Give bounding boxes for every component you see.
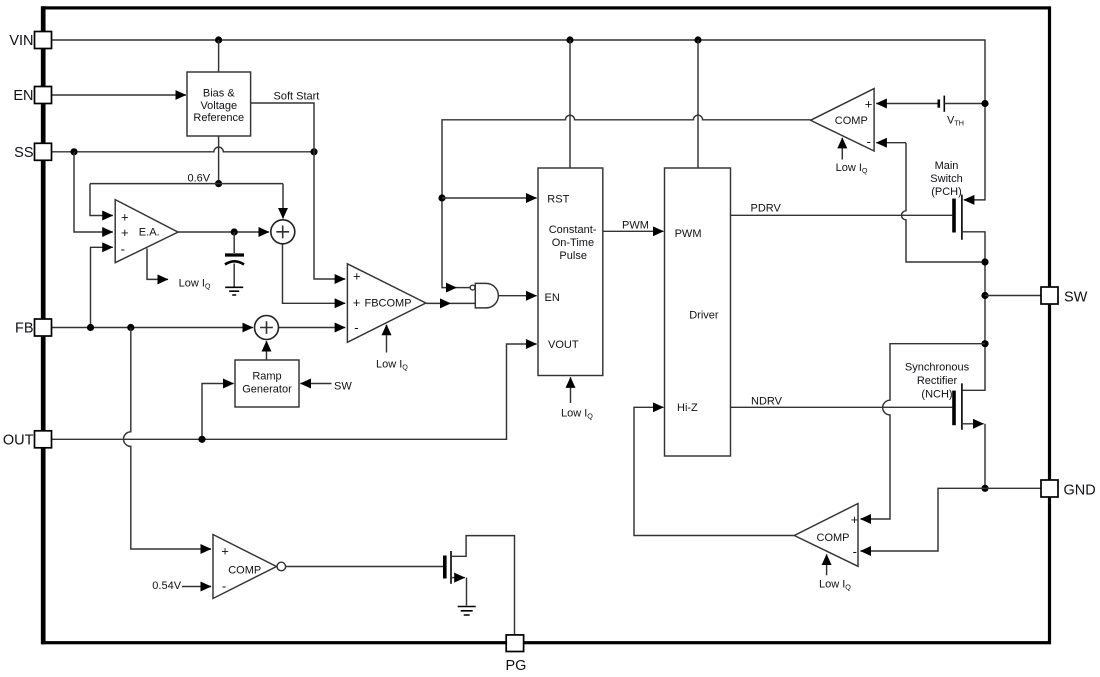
summing node S1 [271, 220, 295, 244]
svg-text:Main: Main [935, 160, 959, 172]
svg-text:Pulse: Pulse [559, 250, 587, 262]
box Bias & Voltage Reference [187, 72, 251, 136]
op-amp COMP power good [213, 535, 277, 599]
node RST branch [438, 194, 445, 201]
svg-text:COMP: COMP [228, 565, 261, 577]
svg-text:GND: GND [1064, 483, 1096, 499]
wire OUT pin line to VOUT input of COT [52, 344, 537, 439]
wire NDRV to synchronous rectifier gate [731, 406, 953, 408]
wire 0.6V to EA first + input [90, 184, 113, 216]
wire Low IQ arrow under top COMP [841, 138, 843, 160]
svg-text:+: + [121, 210, 129, 225]
svg-text:RST: RST [547, 193, 569, 205]
svg-text:Low IQ: Low IQ [819, 579, 851, 592]
svg-text:SW: SW [334, 381, 352, 393]
svg-text:Rectifier: Rectifier [917, 375, 958, 387]
wire COMP - input from SW node with hop over PDRV [902, 143, 986, 262]
svg-text:E.A.: E.A. [139, 227, 160, 239]
wire PG comparator output to PG transistor gate [286, 566, 443, 568]
svg-text:Low IQ: Low IQ [376, 359, 408, 372]
svg-text:Soft Start: Soft Start [274, 91, 320, 103]
pin FB [35, 319, 52, 336]
svg-text:On-Time: On-Time [552, 237, 594, 249]
wire bias box bottom to 0.6V node [218, 136, 220, 184]
svg-text:OUT: OUT [3, 433, 34, 449]
wire NCH source arrow to GND rail [963, 423, 984, 425]
wire 0.54V to COMP - input [182, 586, 211, 588]
svg-text:Generator: Generator [242, 384, 292, 396]
svg-text:+: + [221, 544, 229, 559]
pin PG [506, 635, 523, 652]
node VIN-COT junction [566, 36, 573, 43]
svg-text:Driver: Driver [689, 309, 719, 321]
node VIN-driver junction [694, 36, 701, 43]
wire PCH drain down main rail to NCH drain [962, 232, 985, 390]
svg-text:Switch: Switch [930, 173, 962, 185]
box Ramp Generator [235, 360, 299, 407]
ground under PG transistor [458, 607, 476, 616]
transistor synchronous rectifier NCH [952, 391, 956, 426]
wire PG drain up and to PG pin [451, 536, 515, 635]
node VIN-bias junction [215, 36, 222, 43]
transistor PG NCH [443, 556, 447, 579]
node EA output capacitor branch [231, 228, 238, 235]
node soft-start SS junction [310, 148, 317, 155]
wire 0.6V down into summing node S1 [282, 184, 284, 219]
wire FB pin line to summing node S2 [52, 327, 253, 329]
pin SW [1041, 287, 1058, 304]
wire to bottom COMP + input with hop over NDRV [861, 344, 986, 519]
svg-text:FB: FB [15, 321, 34, 337]
svg-text:NDRV: NDRV [751, 396, 783, 408]
wire FBCOMP output to AND gate lower input [426, 302, 451, 304]
svg-text:SS: SS [14, 145, 33, 161]
svg-text:PWM: PWM [675, 228, 702, 240]
box Constant-On-Time Pulse [538, 168, 603, 376]
svg-text:Reference: Reference [193, 112, 244, 124]
wire bias box top to VIN rail [218, 40, 220, 72]
pin GND [1041, 480, 1058, 497]
svg-text:+: + [865, 97, 873, 112]
battery VTH [937, 100, 940, 108]
wire OUT to Ramp Generator input [202, 384, 234, 440]
svg-text:Constant-: Constant- [549, 224, 597, 236]
capacitor on EA output [233, 232, 235, 253]
wire bottom COMP output to Hi-Z input [634, 407, 794, 535]
svg-text:COMP: COMP [835, 115, 868, 127]
box Driver [665, 168, 731, 456]
svg-text:EN: EN [545, 292, 560, 304]
svg-text:0.54V: 0.54V [152, 580, 181, 592]
pin VIN [35, 32, 52, 49]
node NCH drain / comp+ junction [981, 340, 988, 347]
svg-text:0.6V: 0.6V [188, 173, 211, 185]
node 0.6V junction [215, 180, 222, 187]
wire 0.6V horizontal [90, 183, 283, 185]
wire FB to EA minus input [91, 247, 113, 327]
transistor main switch PCH [952, 199, 956, 233]
wire SW input to Ramp Generator [300, 383, 331, 385]
svg-text:-: - [222, 579, 226, 594]
svg-text:Low IQ: Low IQ [836, 162, 868, 175]
summing node S2 [255, 316, 279, 340]
svg-text:EN: EN [13, 88, 33, 104]
node OUT ramp branch [198, 436, 205, 443]
svg-text:Low IQ: Low IQ [179, 278, 211, 291]
node FB down branch [127, 324, 134, 331]
svg-text:COMP: COMP [817, 532, 850, 544]
svg-text:VIN: VIN [9, 33, 33, 49]
svg-text:Voltage: Voltage [200, 100, 237, 112]
wire PDRV to main switch gate [731, 214, 953, 216]
svg-text:Hi-Z: Hi-Z [677, 402, 698, 414]
svg-text:(NCH): (NCH) [921, 389, 952, 401]
svg-text:Ramp: Ramp [252, 371, 281, 383]
svg-text:SW: SW [1064, 290, 1088, 306]
wire GND to bottom COMP - input [861, 488, 986, 551]
wire SW pin [985, 295, 1041, 297]
node SS branch junction [70, 148, 77, 155]
wire S2 output to FBCOMP minus input [279, 327, 346, 329]
svg-text:Bias &: Bias & [203, 88, 235, 100]
node FB to EA branch [87, 324, 94, 331]
node GND junction [981, 485, 988, 492]
AND gate (inverted top input) [475, 283, 498, 308]
svg-text:VOUT: VOUT [548, 339, 579, 351]
svg-text:(PCH): (PCH) [931, 186, 962, 198]
wire SS pin line with hop over bias vertical [52, 147, 315, 152]
wire EN pin to Bias box [52, 94, 186, 96]
wire PWM from COT to Driver [603, 230, 664, 232]
svg-text:Low IQ: Low IQ [561, 408, 593, 421]
pin EN [35, 87, 52, 104]
wire battery to COMP + input [876, 103, 938, 105]
svg-text:-: - [867, 134, 871, 149]
svg-text:+: + [353, 295, 361, 310]
wire FB down to PG comparator + input with hop over OUT line [124, 328, 211, 550]
svg-text:-: - [354, 320, 358, 335]
wire COT top to VIN rail [569, 40, 571, 168]
node battery VIN junction [981, 100, 988, 107]
wire S1 output to FBCOMP second + input [283, 244, 346, 303]
wire top COMP output line down to AND gate upper input [442, 115, 811, 287]
wire PG source arrow to ground [451, 577, 465, 579]
wire VIN rail: pin to top-right corner down to PCH source arrow [52, 40, 986, 200]
svg-text:PDRV: PDRV [751, 203, 782, 215]
op-amp COMP top right [811, 89, 875, 151]
wire E.A. output to summing node S1 [178, 231, 269, 233]
wire SS to EA second + input [74, 152, 113, 232]
wire Low IQ arrow under FBCOMP [386, 325, 388, 353]
svg-text:+: + [121, 225, 129, 240]
node SW junction [981, 292, 988, 299]
svg-text:+: + [851, 512, 859, 527]
wire Ramp Generator to S2 [266, 341, 268, 360]
wire AND gate output to EN input [499, 295, 537, 297]
wire Soft Start: bias box to FBCOMP first + input [251, 103, 346, 279]
svg-text:-: - [853, 544, 857, 559]
op-amp COMP bottom right [794, 504, 858, 567]
wire Low IQ arrow under E.A. [147, 248, 168, 279]
svg-text:-: - [121, 242, 125, 257]
wire GND pin [985, 487, 1041, 489]
op-amp E.A. [115, 200, 178, 263]
svg-text:PWM: PWM [622, 220, 649, 232]
comparator FBCOMP [347, 264, 425, 343]
svg-text:PG: PG [506, 658, 527, 674]
node COMP minus junction [981, 258, 988, 265]
wire Low IQ arrow under bottom COMP [826, 554, 828, 575]
wire Low IQ arrow under COT [570, 377, 572, 403]
wire RST input [442, 197, 537, 199]
svg-text:+: + [353, 269, 361, 284]
svg-text:VTH: VTH [947, 115, 964, 128]
pin OUT [35, 431, 52, 448]
ground under capacitor [225, 287, 243, 295]
pin SS [35, 143, 52, 160]
svg-text:FBCOMP: FBCOMP [365, 298, 412, 310]
wire Driver top to VIN rail [697, 40, 699, 168]
svg-text:Synchronous: Synchronous [905, 362, 970, 374]
